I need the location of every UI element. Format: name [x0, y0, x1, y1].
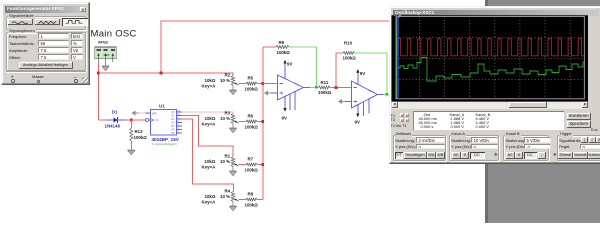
wire U1 O2 to R4	[182, 119, 233, 192]
potentiometer R2 10k	[202, 73, 239, 91]
wire R1 wiper to R7	[239, 164, 247, 166]
resistor R6 100kOhm	[245, 114, 259, 130]
resistor R5 100kOhm	[245, 76, 259, 92]
instrument window: function generator XFG2	[1, 2, 90, 85]
wire U1 O0 to R3	[182, 112, 233, 114]
wire junction up to R10	[336, 53, 343, 88]
junction at generator output	[97, 72, 100, 75]
potentiometer R1 10k	[202, 154, 239, 172]
wire U1 O1 to R1	[182, 116, 233, 157]
wire R9 to op-amp1 output (green)	[289, 47, 317, 88]
resistor R13 100kOhm	[130, 120, 147, 149]
on-page connector at U1 MR pin	[132, 110, 146, 115]
junction at top wire branch	[160, 72, 163, 75]
resistor R10 100kOhm	[343, 41, 357, 61]
resistor R7 100kOhm	[245, 157, 259, 173]
wire R7 to summing bus	[257, 164, 263, 166]
workspace outside sheet	[487, 0, 600, 223]
wire R4 wiper to R8	[239, 199, 247, 201]
potentiometer R3 10k	[202, 111, 239, 129]
junction op-amp1 output / R9	[315, 86, 318, 89]
oscilloscope readout table	[413, 111, 564, 130]
resistor R8 100kOhm	[245, 192, 259, 208]
junction R11 / R10	[335, 86, 338, 89]
power -9V at op-amp1	[282, 108, 287, 121]
wire bus to R9	[263, 46, 276, 48]
potentiometer R4 10k	[202, 189, 239, 207]
instrument window: oscilloscope XSC1	[389, 6, 600, 164]
wire bus to op-amp1 inverting input	[263, 83, 278, 85]
op-amp U2	[271, 64, 304, 111]
junction summing bus	[262, 163, 265, 166]
junction summing bus	[262, 120, 265, 123]
diode D1 1N4148	[105, 110, 126, 129]
resistor R11 100kOhm	[318, 80, 332, 95]
wire XFG2 + output vertical	[97, 62, 99, 121]
ground at R13	[128, 149, 135, 155]
wire node to R2 potentiometer	[98, 73, 232, 76]
power +9V at op-amp2	[356, 69, 365, 76]
wire R3 wiper to R6	[239, 121, 247, 123]
junction D1 / R13	[130, 119, 133, 122]
IC U1 4024BP_15V	[146, 104, 183, 146]
wire R6 to summing bus	[257, 121, 263, 123]
power +9V at op-amp1	[283, 60, 292, 67]
on-page connector at op-amp1 + input	[264, 90, 271, 95]
wire R8 to summing bus	[257, 199, 263, 201]
ground at R1	[229, 171, 236, 176]
power -9V at op-amp2	[355, 114, 360, 125]
wire R2 wiper to R5	[239, 83, 247, 85]
ground at XFG2 COM pin	[102, 59, 109, 71]
function generator XFG2	[95, 41, 117, 63]
wire R10 to op-amp2 output (green)	[355, 53, 388, 95]
wire op-amp2 output to oscilloscope	[378, 94, 384, 96]
on-page connector at op-amp2 + input	[338, 99, 345, 104]
junction op-amp2 output / R10	[386, 93, 389, 96]
oscilloscope control groups	[393, 135, 447, 162]
wire op-amp1 output	[304, 87, 311, 89]
schematic sheet background	[0, 0, 487, 223]
wire XFG2 to D1	[98, 119, 105, 121]
wire to oscilloscope channel A (top)	[161, 21, 392, 73]
junction summing bus	[262, 82, 265, 85]
wire R5 to summing bus	[257, 83, 263, 85]
ground at R3	[229, 128, 236, 133]
ground at R2	[229, 90, 236, 95]
op-amp U3	[345, 73, 378, 116]
ground at R4	[229, 206, 236, 211]
wire D1 to U1 clock pin	[126, 119, 146, 121]
wire R11 to op-amp2 inverting input	[330, 87, 352, 89]
wire summing bus	[262, 47, 264, 200]
resistor R9 100kOhm	[276, 40, 290, 55]
